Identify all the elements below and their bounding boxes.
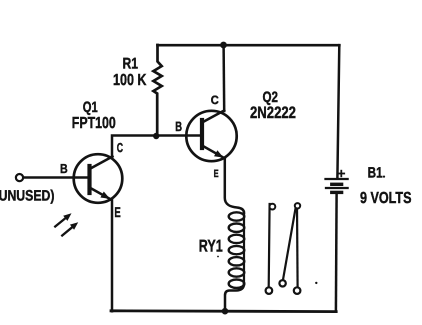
light arrow 2 [62,222,78,235]
speck artifact 2 [383,176,385,178]
wire Q2 emitter [225,158,244,213]
svg-text:B: B [60,161,68,176]
svg-text:100 K: 100 K [113,72,147,89]
svg-text:E: E [114,204,120,220]
relay contact arm left [266,204,276,294]
svg-text:Q1: Q1 [83,99,98,116]
wire right rail upper [337,45,339,178]
node base junction [153,133,159,139]
transistor Q2 [186,111,236,162]
transistor Q1 [74,154,123,203]
wire Q1 collector [112,136,156,158]
relay coil RY1 [225,212,244,311]
svg-text:B: B [175,119,182,134]
svg-text:C: C [211,93,219,107]
wire Q1 base [23,176,88,179]
wire top rail [158,44,340,47]
svg-text:9 VOLTS: 9 VOLTS [360,190,412,207]
terminal unused base [16,174,23,181]
wire bottom rail [111,309,336,313]
wire Q2 base (junction to Q2) [156,134,202,137]
wire Q2 collector [222,45,225,111]
node coil junction [222,308,229,315]
svg-text:(UNUSED): (UNUSED) [0,187,55,204]
wire right rail lower [335,194,338,311]
battery B1 [326,171,348,193]
resistor R1 [153,45,161,136]
light arrow 1 [55,213,71,226]
svg-text:2N2222: 2N2222 [250,104,296,122]
svg-text:C: C [117,140,124,155]
svg-text:E: E [214,168,219,180]
svg-text:R1: R1 [123,55,139,72]
svg-text:FPT100: FPT100 [72,115,116,132]
svg-text:RY1: RY1 [199,237,223,256]
node collector junction [220,42,227,49]
wire Q1 emitter [111,200,114,311]
speck artifact 3 [217,256,219,258]
svg-text:B1: B1 [368,165,383,182]
speck artifact [315,282,317,284]
relay contact armature right [279,203,300,294]
